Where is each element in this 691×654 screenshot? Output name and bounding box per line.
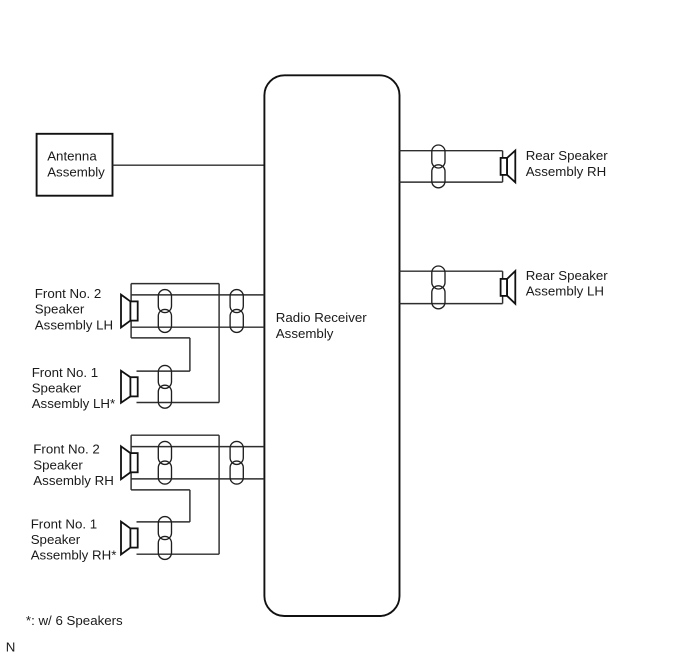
wire: staircase horizontal	[131, 489, 190, 491]
front No.1 RH speaker icon	[121, 522, 138, 555]
wire: loop right vertical	[218, 435, 220, 554]
rear speaker LH: wire top	[400, 270, 503, 272]
wire: No.1 LH top	[137, 370, 190, 372]
front No.1 LH twisted pair symbol	[158, 365, 171, 408]
wire: loop top edge	[131, 283, 219, 285]
svg-text:Front No. 1: Front No. 1	[31, 516, 98, 531]
svg-text:Front No. 2: Front No. 2	[35, 286, 102, 301]
front No.2 LH label	[35, 286, 113, 332]
rear speaker RH twisted pair symbol	[432, 145, 445, 188]
wire: vertical at No.2 RH speaker terminals	[130, 435, 132, 490]
svg-text:Assembly LH: Assembly LH	[526, 283, 604, 298]
rear speaker RH: wire bottom	[400, 181, 503, 183]
rear speaker RH: wire top	[400, 150, 503, 152]
svg-text:Radio Receiver: Radio Receiver	[276, 310, 367, 325]
rear speaker LH: wire bottom	[400, 303, 503, 305]
rear speaker LH label	[526, 268, 609, 299]
wire antenna to radio receiver	[113, 164, 265, 166]
svg-text:Speaker: Speaker	[32, 380, 82, 395]
rear speaker LH twisted pair symbol	[432, 266, 445, 309]
front No.2 LH second twisted pair symbol	[230, 290, 243, 333]
rear speaker LH: connector line	[502, 271, 504, 303]
front No.2 LH first twisted pair symbol	[158, 290, 171, 333]
wire: No.2 LH top to receiver	[131, 294, 264, 296]
front No.2 LH speaker icon	[121, 295, 138, 328]
wire: No.2 RH top to receiver	[131, 446, 264, 448]
wire: No.2 LH bottom to receiver	[131, 326, 264, 328]
wire: staircase horizontal	[131, 337, 190, 339]
svg-text:Assembly: Assembly	[276, 326, 334, 341]
svg-text:Antenna: Antenna	[47, 149, 97, 164]
svg-text:Front No. 2: Front No. 2	[33, 442, 100, 457]
wire: No.1 RH bottom	[137, 553, 220, 555]
rear speaker RH: connector line	[502, 151, 504, 182]
front No.1 RH twisted pair symbol	[158, 517, 171, 560]
rear speaker RH label	[526, 148, 609, 179]
wire: loop top edge	[131, 434, 219, 436]
svg-text:Assembly RH: Assembly RH	[526, 164, 607, 179]
wire: No.2 RH bottom to receiver	[131, 478, 264, 480]
svg-text:Assembly RH*: Assembly RH*	[31, 548, 117, 563]
svg-text:Rear Speaker: Rear Speaker	[526, 268, 609, 283]
wire: staircase vertical	[189, 490, 191, 522]
svg-text:N: N	[6, 639, 16, 654]
front No.2 RH first twisted pair symbol	[158, 441, 171, 484]
wire: No.1 RH top	[137, 521, 190, 523]
svg-text:Rear Speaker: Rear Speaker	[526, 148, 609, 163]
front No.1 RH label	[31, 516, 117, 562]
front LH group wiring	[131, 284, 264, 403]
svg-text:Speaker: Speaker	[33, 457, 83, 472]
radio receiver assembly box	[264, 75, 399, 616]
svg-text:Assembly LH*: Assembly LH*	[32, 396, 116, 411]
antenna assembly box	[37, 134, 113, 196]
wire: No.1 LH bottom	[137, 402, 220, 404]
svg-text:Front No. 1: Front No. 1	[32, 365, 99, 380]
svg-text:Assembly LH: Assembly LH	[35, 317, 113, 332]
wire: staircase vertical	[189, 338, 191, 371]
front No.1 LH label	[32, 365, 116, 411]
rear speaker LH speaker icon	[501, 271, 516, 304]
front No.2 RH label	[33, 442, 114, 488]
front No.2 RH second twisted pair symbol	[230, 441, 243, 484]
rear speaker RH speaker icon	[501, 151, 516, 183]
svg-text:Assembly RH: Assembly RH	[33, 473, 114, 488]
svg-text:Speaker: Speaker	[31, 532, 81, 547]
svg-text:*: w/ 6 Speakers: *: w/ 6 Speakers	[26, 613, 123, 628]
wire: loop right vertical	[218, 284, 220, 403]
front No.1 LH speaker icon	[121, 371, 138, 403]
wire: vertical at No.2 LH speaker terminals	[130, 284, 132, 338]
svg-text:Assembly: Assembly	[47, 164, 105, 179]
front No.2 RH speaker icon	[121, 446, 138, 479]
svg-text:Speaker: Speaker	[35, 302, 85, 317]
front RH group wiring	[131, 435, 264, 554]
